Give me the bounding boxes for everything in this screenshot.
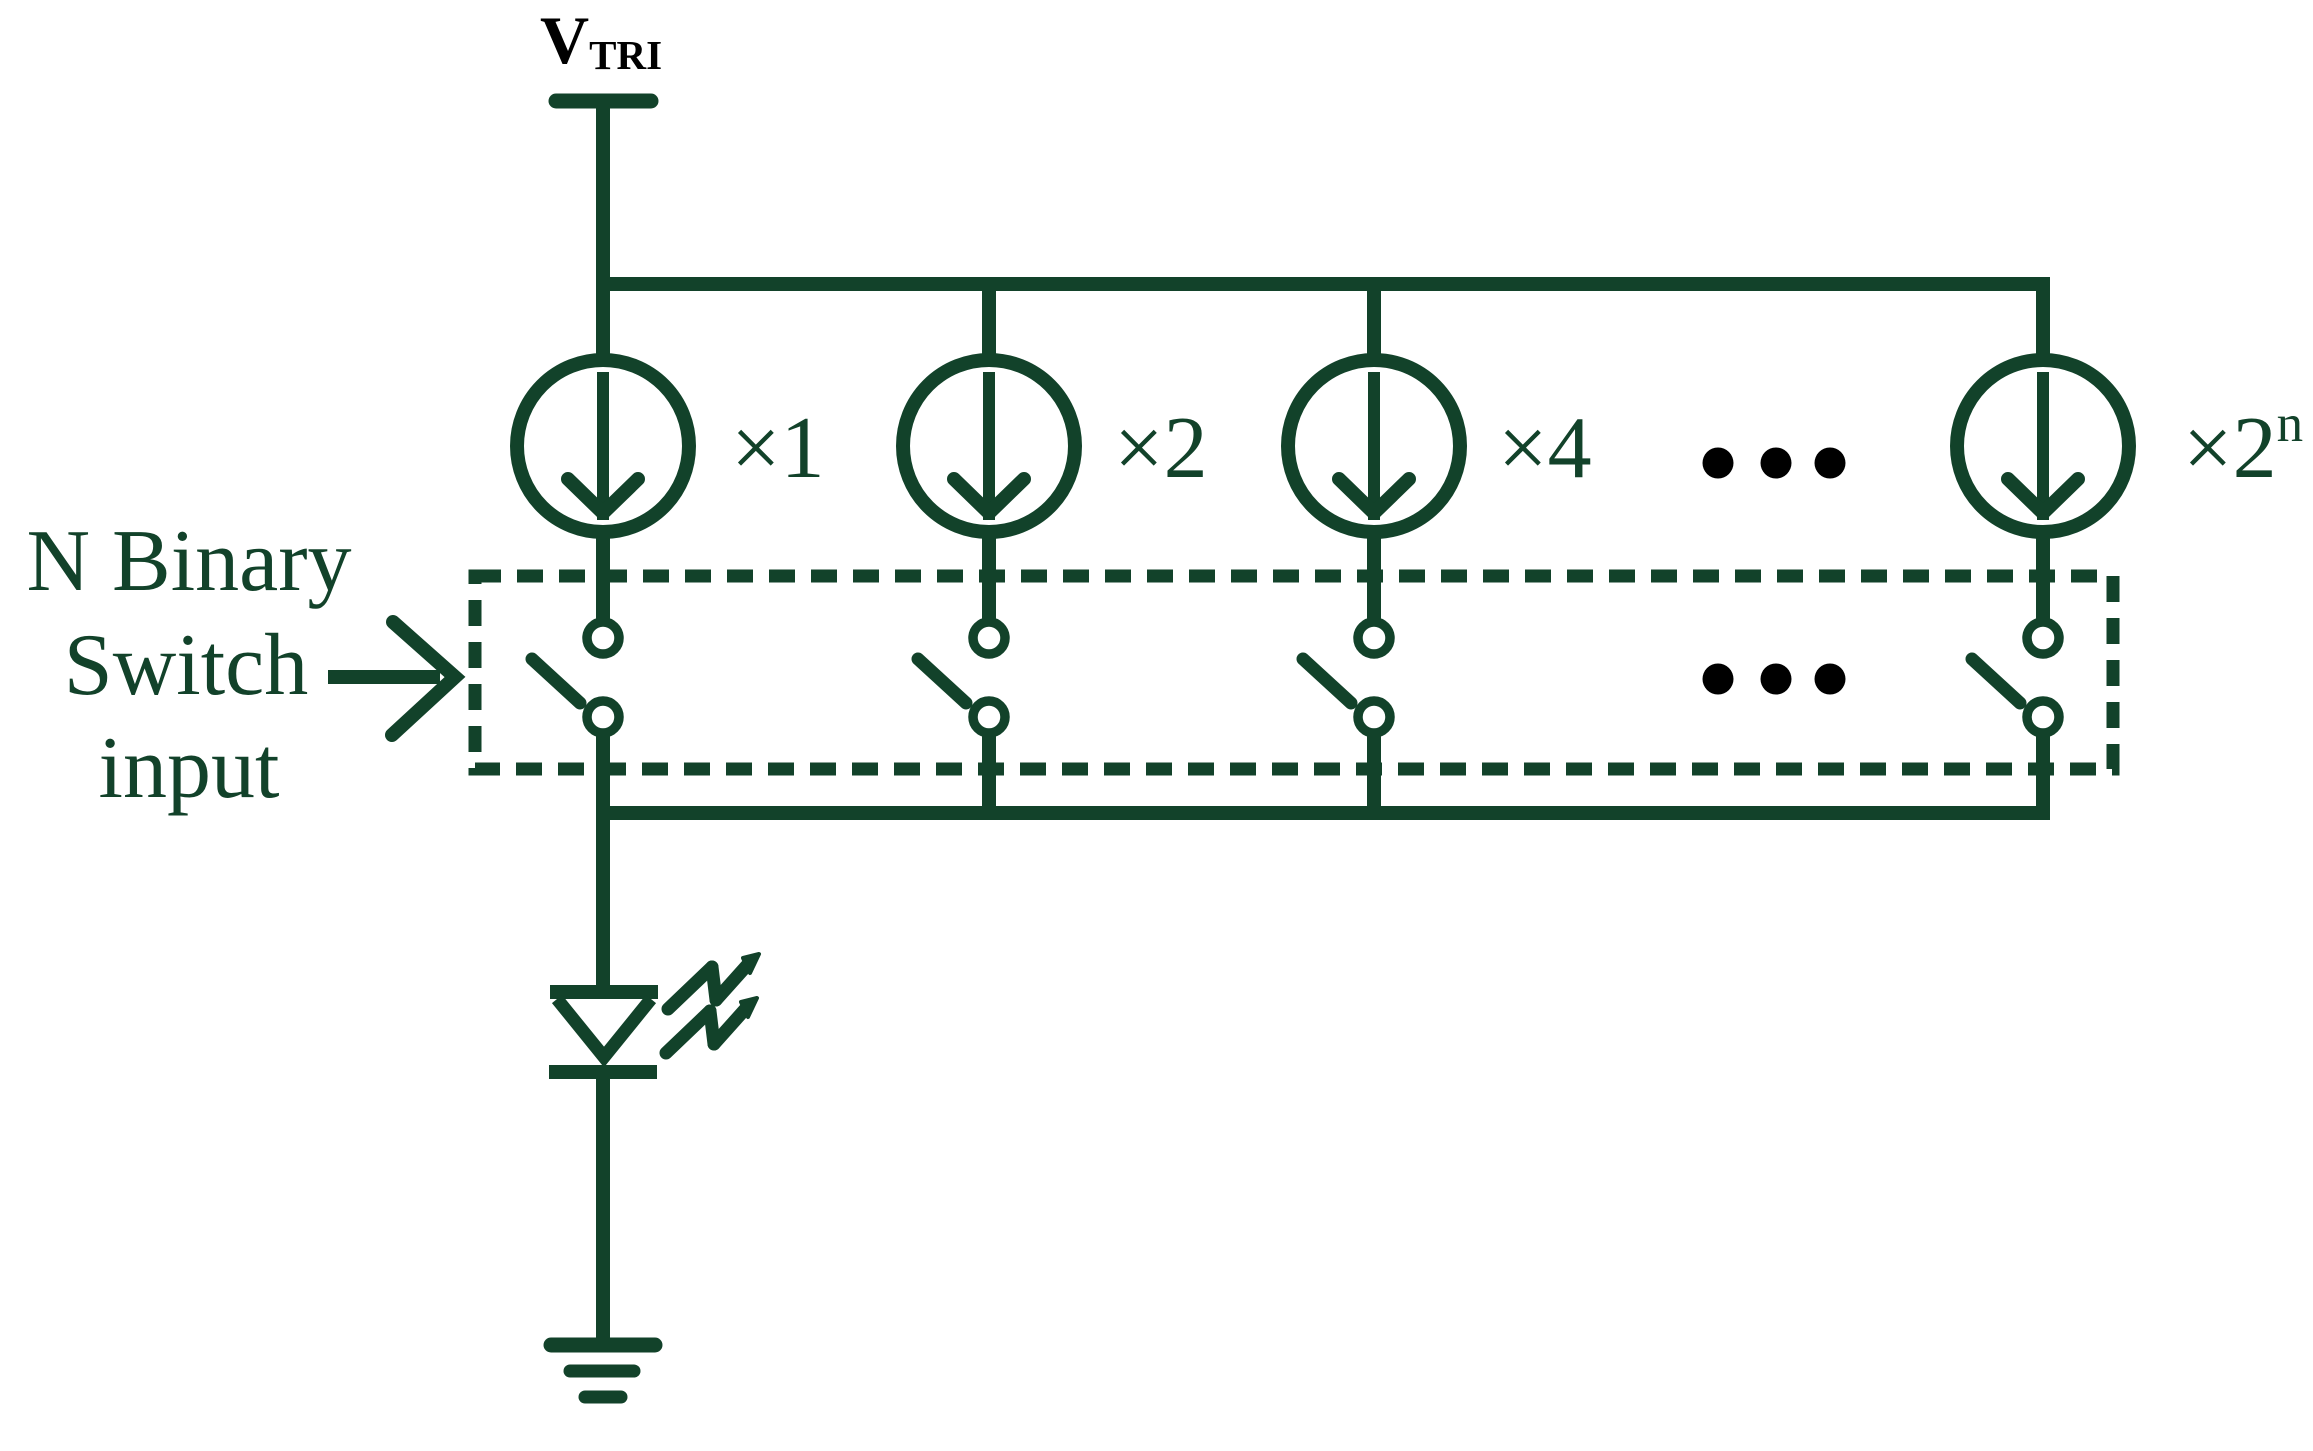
current source I2 [903, 360, 1075, 532]
svg-text:×4: ×4 [1498, 400, 1592, 497]
LED light arrow 1 [668, 954, 759, 1009]
svg-text:Switch: Switch [64, 617, 308, 714]
wire branch 4 drop to current source [2036, 277, 2050, 362]
svg-text:×1: ×1 [731, 400, 825, 497]
label N Binary Switch input [26, 513, 351, 817]
svg-text:VTRI: VTRI [540, 2, 662, 78]
wire I2 to switch S2 [982, 527, 996, 621]
wire I1 to switch S1 [596, 527, 610, 621]
switch S3 [1303, 622, 1390, 820]
switch S4 [1972, 622, 2059, 820]
ground [551, 1345, 655, 1397]
wire I3 to switch S3 [1367, 527, 1381, 621]
ellipsis between current sources [1703, 448, 1846, 479]
wire branch 2 drop to current source [982, 284, 996, 362]
svg-text:×2n: ×2n [2183, 395, 2303, 497]
svg-text:×2: ×2 [1114, 400, 1208, 497]
svg-text:N Binary: N Binary [26, 513, 351, 610]
wire branch 3 drop to current source [1367, 284, 1381, 362]
switch S1 [532, 622, 619, 820]
wire VTRI riser [596, 101, 610, 291]
arrow switch input [328, 622, 455, 735]
wire bus to LED [596, 813, 610, 992]
power rail VTRI bar [556, 94, 651, 109]
switch S2 [918, 622, 1005, 820]
wire top bus [596, 277, 2050, 291]
wire LED to ground [596, 1072, 610, 1340]
wire branch 1 drop to current source [596, 284, 610, 362]
dashed switch box [475, 576, 2113, 769]
current source I4 [1957, 360, 2129, 532]
current source I1 [517, 360, 689, 532]
svg-text:input: input [99, 720, 280, 817]
LED D1 [549, 954, 759, 1072]
current source I3 [1288, 360, 1460, 532]
ellipsis between switches [1703, 664, 1846, 695]
wire bottom bus [596, 806, 2050, 820]
wire I4 to switch S4 [2036, 527, 2050, 621]
LED light arrow 2 [666, 998, 757, 1053]
